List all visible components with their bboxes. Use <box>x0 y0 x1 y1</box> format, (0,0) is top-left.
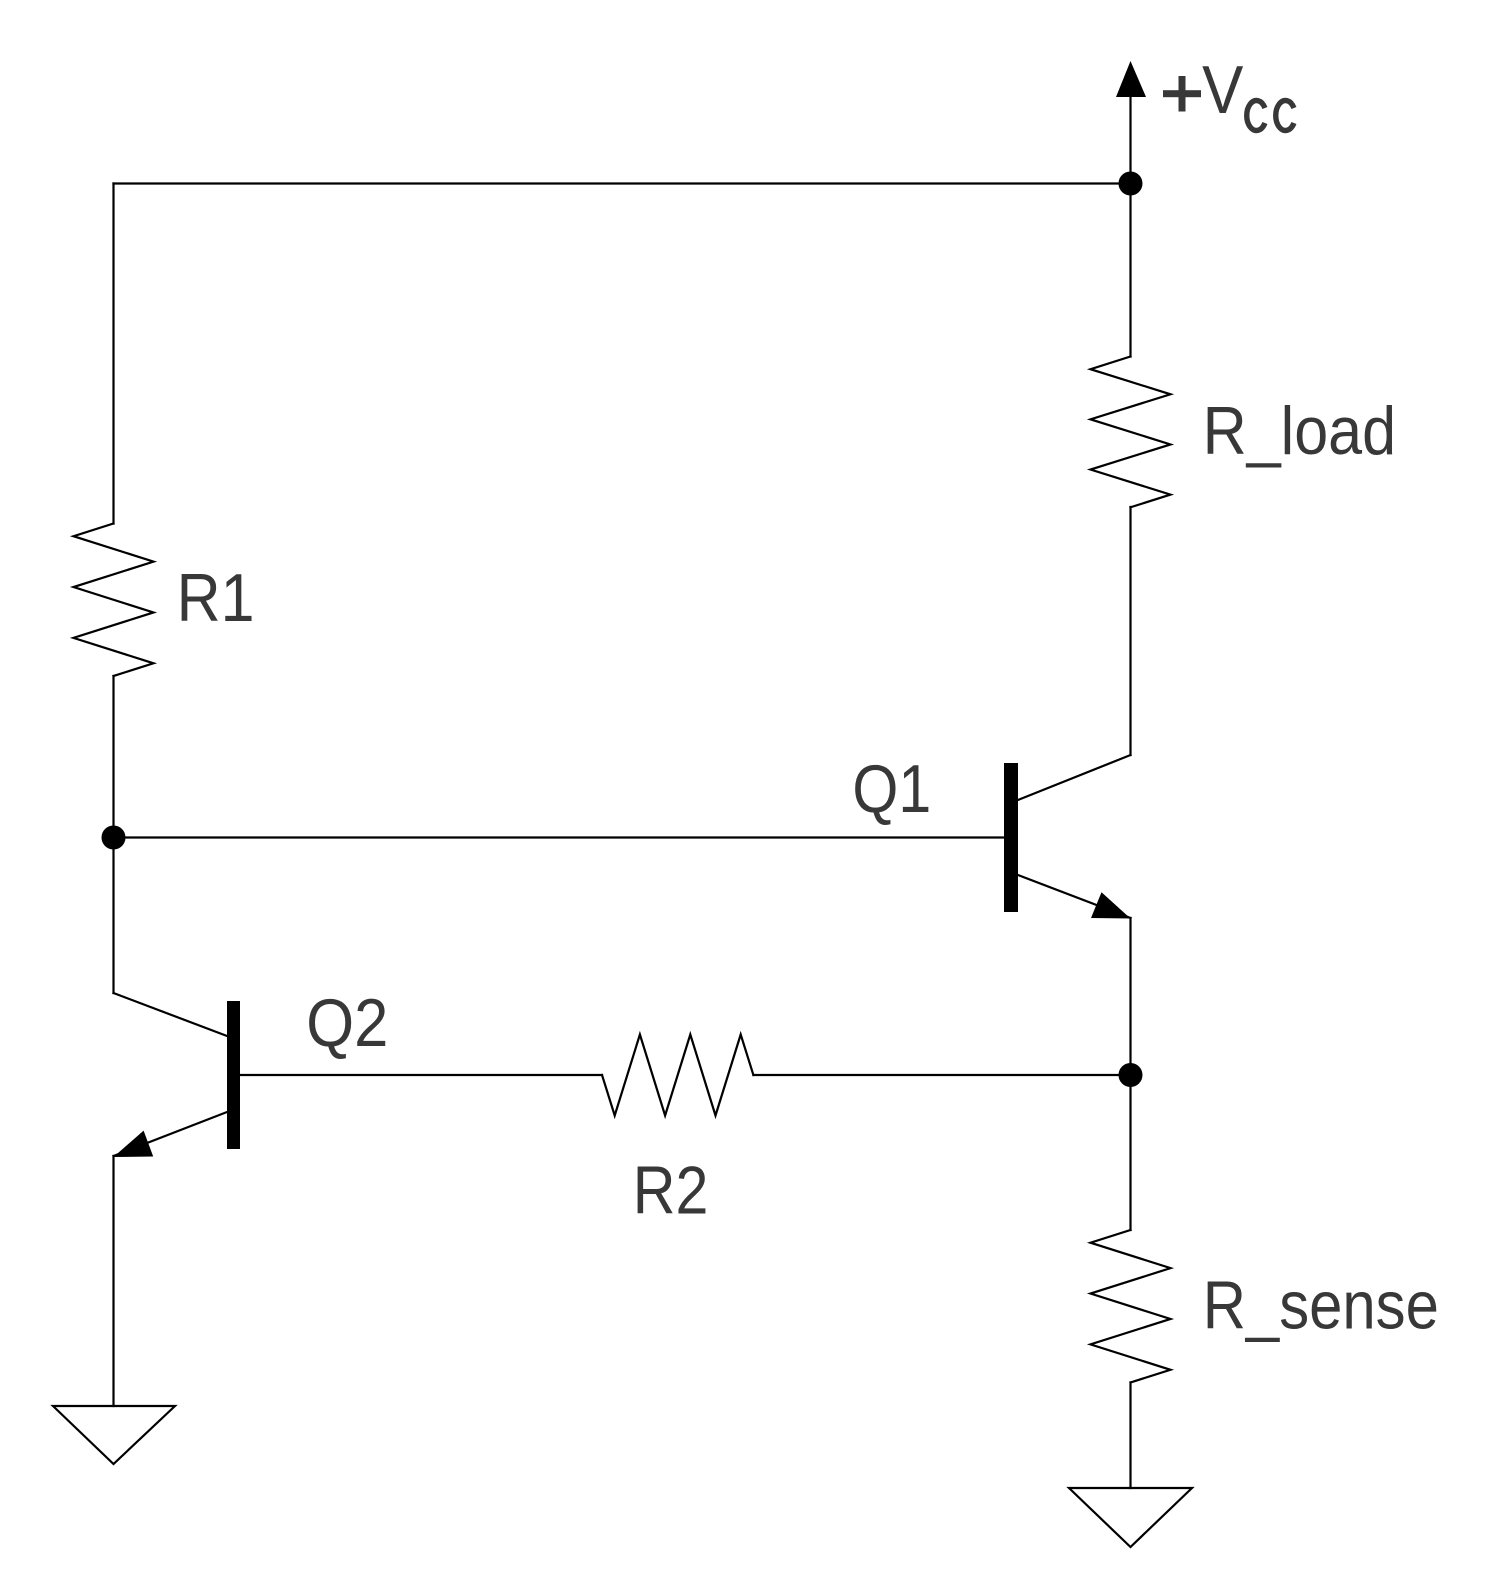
label R2 <box>633 1152 709 1229</box>
label Q2 <box>306 984 388 1061</box>
svg-text:R_sense: R_sense <box>1203 1267 1439 1343</box>
wire: Q2 base to R2 <box>240 1074 602 1076</box>
wire: R_load bottom down to Q1 collector bend <box>1129 507 1131 755</box>
label R_sense <box>1203 1267 1439 1343</box>
ground symbol left <box>53 1406 175 1464</box>
transistor Q2 collector diagonal <box>114 993 228 1036</box>
svg-text:Q1: Q1 <box>852 751 931 827</box>
node at Vcc <box>1119 172 1143 196</box>
label +Vcc <box>1163 76 1201 112</box>
transistor Q1 collector diagonal <box>1018 755 1131 800</box>
power symbol +Vcc arrow stem <box>1129 97 1131 184</box>
transistor Q1 emitter diagonal <box>1018 875 1131 918</box>
svg-text:V: V <box>1202 51 1244 127</box>
wire: R_sense bottom to right ground <box>1129 1383 1131 1489</box>
svg-text:R2: R2 <box>633 1152 709 1229</box>
wire: left rail down to R1 top <box>112 184 114 524</box>
wire: R2 to node B <box>753 1074 1130 1076</box>
transistor Q2 emitter diagonal <box>114 1112 228 1156</box>
label R_load <box>1203 393 1396 469</box>
wire: node B down to R_sense top <box>1129 1075 1131 1230</box>
wire: Vcc node down to R_load top <box>1129 184 1131 357</box>
svg-text:Q2: Q2 <box>306 984 388 1061</box>
resistor R_load zigzag <box>1091 357 1171 508</box>
wire: Q1 base wire from node A <box>114 836 1005 838</box>
power symbol +Vcc arrowhead <box>1116 61 1146 97</box>
ground symbol right <box>1069 1488 1192 1547</box>
wire: Q2 emitter down to left ground <box>112 1156 114 1406</box>
resistor R2 zigzag <box>602 1035 753 1116</box>
svg-text:R_load: R_load <box>1203 393 1396 469</box>
wire: Q1 emitter down to node B <box>1129 918 1131 1075</box>
svg-text:R1: R1 <box>177 560 255 636</box>
node B (Q1 emitter / R2 / R_sense) <box>1119 1063 1143 1087</box>
label Q1 <box>852 751 931 827</box>
node A (R1 / Q1 base / Q2 collector) <box>102 826 126 850</box>
resistor R1 zigzag <box>74 524 154 676</box>
label R1 <box>177 560 255 636</box>
resistor R_sense zigzag <box>1091 1230 1171 1383</box>
transistor Q1 emitter arrowhead <box>1091 892 1131 918</box>
transistor Q2 emitter arrowhead <box>114 1131 154 1157</box>
wire: top horizontal rail from R1 to Vcc node <box>114 182 1131 184</box>
transistor Q1 base bar <box>1004 763 1018 912</box>
transistor Q2 base bar <box>227 1001 240 1149</box>
wire: R1 bottom through node A down to Q2 collector bend <box>112 676 114 993</box>
